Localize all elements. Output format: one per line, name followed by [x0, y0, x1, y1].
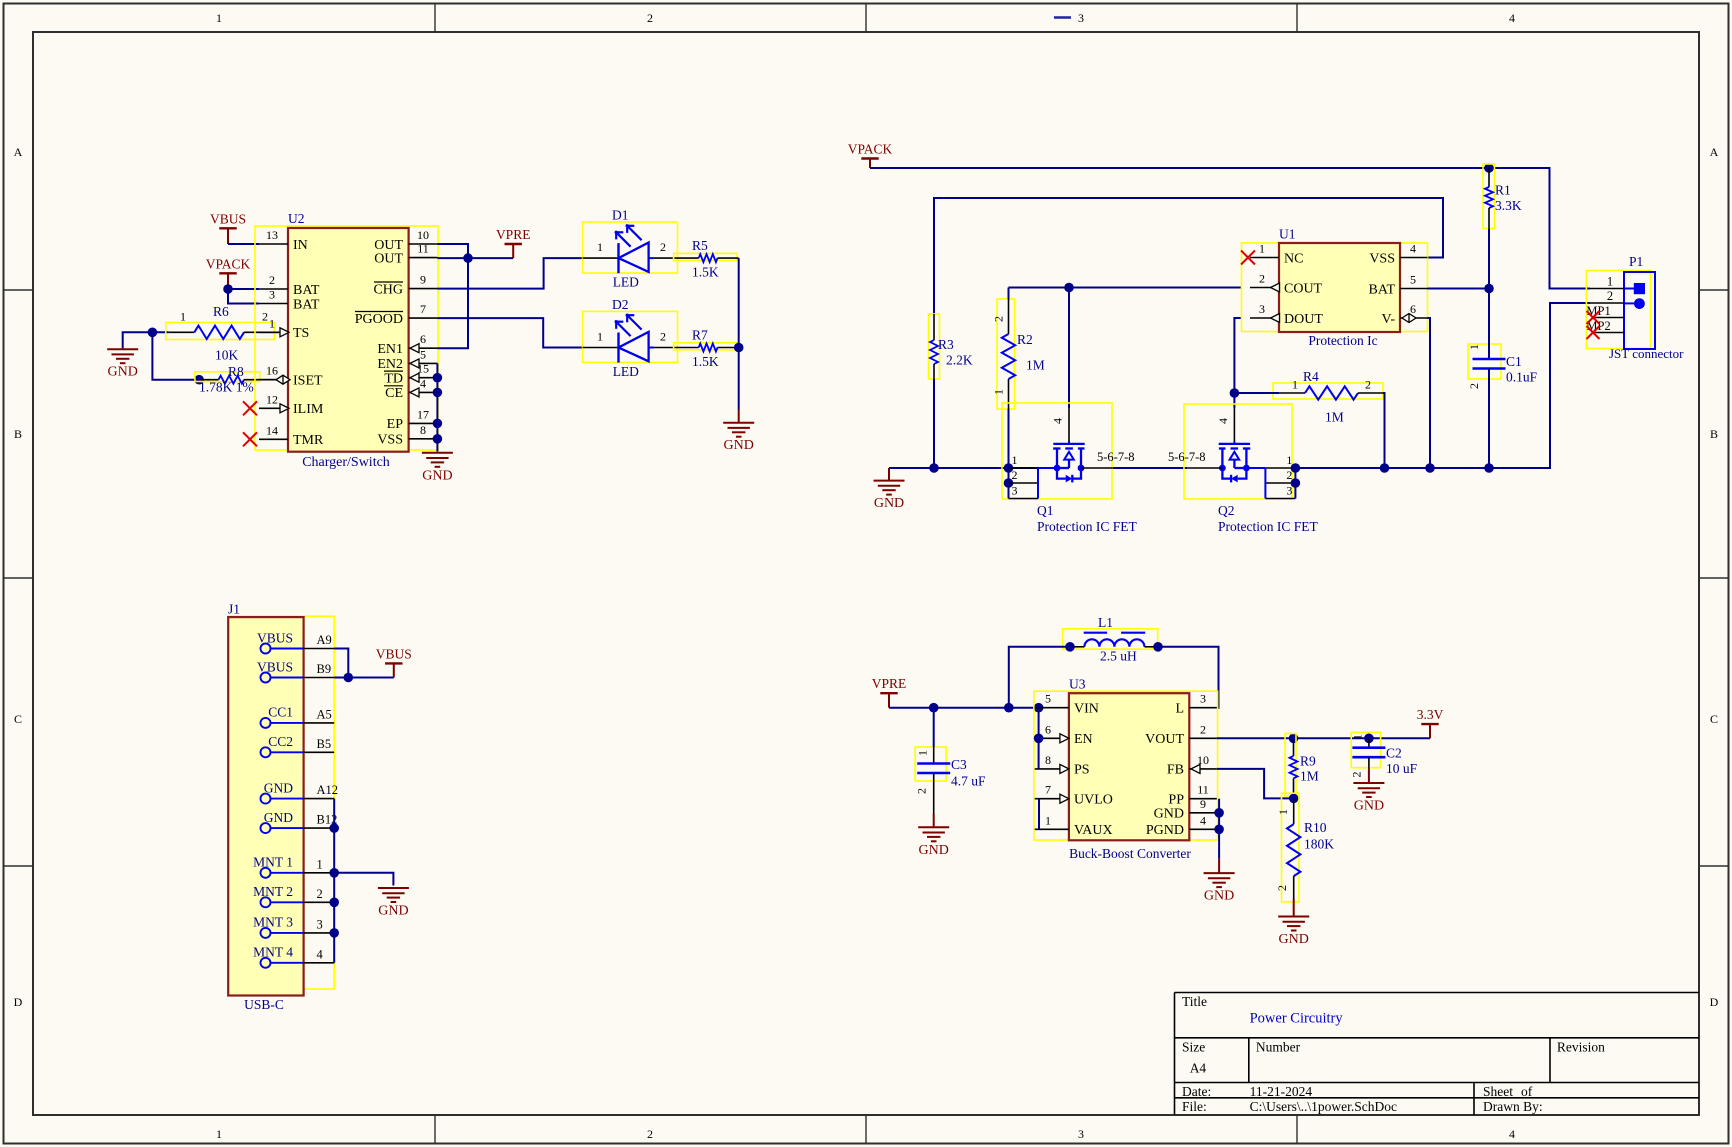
svg-text:0.1uF: 0.1uF: [1506, 370, 1538, 385]
svg-text:3: 3: [1259, 302, 1265, 316]
wire V- down: [1428, 318, 1431, 468]
junction U3 GND pin: [1214, 808, 1224, 818]
svg-text:R10: R10: [1304, 820, 1327, 835]
wire PGOOD to D2: [437, 318, 582, 347]
svg-text:1: 1: [1259, 242, 1265, 256]
svg-text:2: 2: [317, 887, 323, 901]
power port VPRE buck: [872, 676, 907, 708]
svg-text:10 uF: 10 uF: [1386, 761, 1418, 776]
svg-text:4: 4: [1051, 418, 1065, 424]
svg-text:B9: B9: [317, 662, 332, 676]
wire VPRE rail: [889, 707, 1039, 709]
svg-text:VSS: VSS: [377, 433, 403, 448]
svg-text:1: 1: [1045, 813, 1051, 827]
wire VOUT rail: [1217, 737, 1430, 739]
wire COUT to R2: [1008, 288, 1010, 300]
svg-text:ISET: ISET: [293, 374, 323, 389]
junction R8 pin1: [194, 375, 204, 385]
wire COUT: [1009, 287, 1242, 289]
junction VPACK-BAT: [223, 284, 233, 294]
svg-text:EN1: EN1: [377, 342, 403, 357]
junction OUT node: [463, 253, 473, 263]
svg-text:B: B: [1710, 427, 1718, 441]
sheet marker dash: [1054, 16, 1071, 19]
svg-text:3: 3: [1078, 1127, 1084, 1141]
svg-text:VPRE: VPRE: [496, 227, 531, 242]
wire U2 EN2-TD-CE-EP-VSS to GND: [436, 363, 438, 451]
U2 left pins 13,2,3,1,16,12,14: [259, 228, 324, 448]
wire VPACK to BAT pins: [228, 288, 259, 290]
connector J1 USB-C body: [228, 602, 334, 1013]
wire R6 node to GND: [123, 332, 169, 348]
svg-text:PGOOD: PGOOD: [355, 312, 403, 327]
no-ERC mark U1 NC: [1241, 251, 1255, 265]
wire Q1 gate: [1068, 288, 1070, 409]
junction FB node: [1289, 794, 1299, 804]
svg-text:Protection IC FET: Protection IC FET: [1218, 519, 1318, 534]
svg-text:R5: R5: [692, 238, 708, 253]
svg-text:1: 1: [916, 750, 930, 756]
svg-text:A12: A12: [317, 783, 339, 797]
svg-text:MNT 4: MNT 4: [253, 945, 293, 960]
svg-text:Q1: Q1: [1037, 503, 1054, 518]
svg-text:16: 16: [266, 364, 278, 378]
svg-text:CC1: CC1: [268, 705, 293, 720]
svg-text:J1: J1: [228, 602, 240, 617]
wire R7 to GND: [738, 348, 740, 410]
svg-text:4: 4: [1509, 1127, 1515, 1141]
svg-text:B: B: [14, 427, 22, 441]
svg-text:GND: GND: [1204, 889, 1234, 904]
svg-text:MNT 2: MNT 2: [253, 884, 293, 899]
svg-text:GND: GND: [1154, 807, 1184, 822]
wire R1 to BAT node: [1488, 229, 1490, 289]
svg-text:L1: L1: [1098, 615, 1113, 630]
svg-text:5: 5: [1045, 692, 1051, 706]
wire J1 GND bus: [333, 799, 335, 963]
svg-text:1: 1: [597, 240, 603, 254]
svg-text:GND: GND: [264, 780, 293, 795]
svg-text:VSS: VSS: [1369, 251, 1395, 266]
svg-text:L: L: [1175, 702, 1184, 717]
svg-text:OUT: OUT: [374, 251, 403, 266]
svg-text:R4: R4: [1303, 369, 1319, 384]
svg-text:4: 4: [1509, 11, 1515, 25]
svg-text:2: 2: [1259, 272, 1265, 286]
no-ERC mark ILIM: [243, 401, 257, 415]
junction J1 B12: [329, 823, 339, 833]
wire R2 to Q1 pins: [1008, 409, 1010, 499]
svg-text:2: 2: [660, 240, 666, 254]
svg-text:5-6-7-8: 5-6-7-8: [1168, 450, 1206, 464]
svg-text:R6: R6: [213, 304, 229, 319]
wire J1 B9 to VBUS: [334, 677, 394, 679]
junction BAT-C1: [1484, 284, 1494, 294]
wire bus Q2 to JST pin2: [1295, 303, 1590, 468]
transistor Q2: [1184, 404, 1295, 499]
svg-text:A: A: [14, 145, 23, 159]
svg-text:7: 7: [1045, 783, 1051, 797]
svg-text:GND: GND: [919, 843, 949, 858]
svg-text:3: 3: [1078, 11, 1084, 25]
wire MNT1 to GND: [334, 873, 393, 886]
svg-text:2: 2: [262, 310, 268, 324]
wire FB: [1217, 769, 1294, 799]
ground GND under C2: [1353, 783, 1384, 814]
wire U3 GND stub: [1218, 859, 1220, 873]
svg-text:D: D: [14, 995, 23, 1009]
svg-text:1M: 1M: [1325, 410, 1344, 425]
no-ERC mark MP2: [1587, 326, 1600, 339]
junction C3: [929, 703, 939, 713]
svg-text:2: 2: [1012, 468, 1018, 482]
svg-text:2: 2: [1607, 289, 1613, 303]
junction L1 pin1: [1065, 642, 1075, 652]
power port VBUS at J1: [376, 646, 412, 677]
svg-text:CHG: CHG: [373, 282, 403, 297]
svg-text:U1: U1: [1279, 227, 1296, 242]
power port 3.3V: [1417, 707, 1444, 738]
junction DOUT-R4: [1230, 388, 1240, 398]
transistor Q1: [1002, 403, 1113, 499]
junction U3 PGND pin: [1214, 825, 1224, 835]
svg-text:3.3K: 3.3K: [1495, 198, 1522, 213]
resistor R10: [1275, 793, 1334, 902]
svg-text:A5: A5: [317, 707, 332, 721]
U2 right pins 10,11,9,7,6,5,15,4,17,8: [355, 228, 438, 448]
svg-text:1: 1: [180, 310, 186, 324]
junction V- bus: [1425, 463, 1435, 473]
svg-text:VIN: VIN: [1074, 702, 1099, 717]
U2 pin ISET diamond: [276, 375, 290, 384]
junction TD: [433, 373, 443, 383]
junction VIN: [1034, 703, 1044, 713]
U1 V- diamond: [1402, 314, 1416, 323]
junction L1 pin2: [1153, 642, 1163, 652]
svg-text:9: 9: [420, 273, 426, 287]
svg-text:VAUX: VAUX: [1074, 823, 1113, 838]
svg-text:1: 1: [1286, 453, 1292, 467]
svg-text:VOUT: VOUT: [1145, 732, 1184, 747]
svg-text:VBUS: VBUS: [210, 211, 246, 226]
svg-text:EN: EN: [1074, 732, 1093, 747]
svg-text:TS: TS: [293, 326, 309, 341]
svg-text:BAT: BAT: [293, 297, 320, 312]
svg-text:2: 2: [1365, 378, 1371, 392]
svg-text:BAT: BAT: [1369, 282, 1396, 297]
svg-text:2: 2: [1467, 383, 1481, 389]
svg-text:C: C: [1710, 712, 1718, 726]
svg-text:VPACK: VPACK: [848, 142, 893, 157]
svg-text:JST connector: JST connector: [1609, 346, 1684, 361]
svg-text:180K: 180K: [1304, 837, 1334, 852]
junction R3 bus: [929, 463, 939, 473]
wire R3 to bus: [933, 379, 935, 468]
svg-text:C2: C2: [1386, 746, 1402, 761]
svg-text:1: 1: [317, 857, 323, 871]
junction R2-bus: [1004, 463, 1014, 473]
svg-text:11: 11: [1197, 783, 1209, 797]
svg-text:PGND: PGND: [1146, 823, 1184, 838]
junction Q2 pin2: [1291, 478, 1301, 488]
wire OUT to EN1: [437, 258, 468, 348]
svg-text:5: 5: [1410, 273, 1416, 287]
svg-text:D: D: [1710, 995, 1719, 1009]
junction J1 MNT2: [329, 898, 339, 908]
junction C1 bus: [1484, 463, 1494, 473]
svg-text:R7: R7: [692, 328, 708, 343]
svg-text:1: 1: [1276, 809, 1290, 815]
svg-text:1: 1: [597, 330, 603, 344]
svg-text:Size: Size: [1182, 1040, 1205, 1055]
svg-text:GND: GND: [1279, 932, 1309, 947]
svg-text:VPRE: VPRE: [872, 676, 907, 691]
svg-text:FB: FB: [1167, 763, 1184, 778]
svg-text:2: 2: [915, 788, 929, 794]
ground GND under U3: [1204, 873, 1235, 904]
svg-text:USB-C: USB-C: [244, 997, 284, 1012]
svg-text:11-21-2024: 11-21-2024: [1250, 1084, 1313, 1099]
svg-text:Charger/Switch: Charger/Switch: [302, 455, 390, 470]
junction L1 left branch: [1004, 703, 1014, 713]
resistor R5: [674, 238, 739, 280]
svg-text:EP: EP: [387, 417, 404, 432]
wire CHG to D1: [437, 258, 582, 289]
svg-text:1M: 1M: [1300, 769, 1319, 784]
wire VSS rail: [934, 198, 1443, 314]
svg-text:6: 6: [1045, 722, 1051, 736]
wire PP-GND-PGND to GND: [1218, 799, 1220, 859]
U2 pin CE input arrow: [410, 388, 419, 397]
op-amp U2 charger IC body: [255, 211, 438, 470]
svg-text:Protection Ic: Protection Ic: [1308, 333, 1377, 348]
inductor L1: [1063, 615, 1158, 664]
svg-text:C: C: [14, 712, 22, 726]
svg-text:R1: R1: [1495, 183, 1511, 198]
svg-text:Protection IC FET: Protection IC FET: [1037, 519, 1137, 534]
svg-text:GND: GND: [724, 438, 754, 453]
svg-text:GND: GND: [264, 810, 293, 825]
svg-text:2: 2: [1350, 772, 1364, 778]
svg-text:U3: U3: [1069, 677, 1086, 692]
svg-text:3: 3: [1012, 484, 1018, 498]
svg-text:CC2: CC2: [268, 734, 293, 749]
svg-text:R9: R9: [1300, 754, 1316, 769]
U1 DOUT output arrow: [1271, 314, 1280, 323]
svg-text:Number: Number: [1256, 1040, 1301, 1055]
junction VBUS J1: [344, 673, 354, 683]
junction VSS: [433, 434, 443, 444]
svg-text:LED: LED: [613, 275, 639, 290]
LED D1: [583, 208, 678, 290]
svg-text:4: 4: [1410, 242, 1416, 256]
svg-text:4: 4: [1216, 418, 1230, 424]
ground GND under R10: [1278, 917, 1309, 948]
svg-text:Buck-Boost Converter: Buck-Boost Converter: [1069, 846, 1191, 861]
ground GND under U2: [422, 453, 453, 484]
svg-text:GND: GND: [378, 904, 408, 919]
svg-text:1: 1: [1467, 344, 1481, 350]
wire R6 node to R8: [152, 332, 199, 379]
resistor R7: [674, 328, 739, 370]
svg-text:1: 1: [216, 1127, 222, 1141]
svg-text:1: 1: [216, 11, 222, 25]
svg-text:R3: R3: [938, 337, 954, 352]
no-ERC mark TMR: [243, 432, 257, 446]
svg-text:PP: PP: [1168, 793, 1184, 808]
svg-text:GND: GND: [874, 496, 904, 511]
U3 left pins 5,6,8,7,1: [1035, 692, 1113, 838]
svg-text:Drawn By:: Drawn By:: [1483, 1099, 1543, 1114]
junction R6 node: [148, 328, 158, 338]
svg-text:C:\Users\..\1power.SchDoc: C:\Users\..\1power.SchDoc: [1250, 1099, 1397, 1114]
svg-text:R8: R8: [228, 364, 244, 379]
svg-text:2.5 uH: 2.5 uH: [1100, 649, 1137, 664]
svg-text:MNT 1: MNT 1: [253, 855, 293, 870]
wire R10 GND stub: [1293, 899, 1295, 917]
svg-text:UVLO: UVLO: [1074, 793, 1113, 808]
svg-text:13: 13: [266, 228, 278, 242]
title block: [1175, 993, 1700, 1116]
svg-text:1: 1: [1607, 275, 1613, 289]
svg-text:Title: Title: [1182, 994, 1207, 1009]
svg-text:C3: C3: [951, 757, 967, 772]
svg-text:R2: R2: [1017, 332, 1033, 347]
svg-text:11: 11: [417, 242, 429, 256]
wire VPRE to L1: [1009, 647, 1071, 708]
svg-text:1.5K: 1.5K: [692, 354, 719, 369]
no-ERC mark MP1: [1587, 311, 1600, 324]
svg-text:PS: PS: [1074, 763, 1090, 778]
wire VBUS to U2 pin13: [228, 243, 259, 245]
svg-text:2.2K: 2.2K: [946, 353, 973, 368]
junction R9 top: [1289, 734, 1299, 744]
svg-text:DOUT: DOUT: [1284, 312, 1323, 327]
junction Q1 pin2: [1004, 478, 1014, 488]
ground GND left: [107, 349, 138, 380]
svg-text:GND: GND: [422, 468, 452, 483]
svg-text:2: 2: [1275, 885, 1289, 891]
op-amp U3 buck-boost IC body: [1034, 677, 1218, 862]
svg-text:D2: D2: [612, 297, 629, 312]
U2 pin ILIM input arrow: [280, 404, 289, 413]
svg-text:1: 1: [1351, 734, 1365, 740]
svg-text:1: 1: [1292, 378, 1298, 392]
ground GND protection: [888, 468, 890, 481]
svg-text:File:: File:: [1182, 1099, 1207, 1114]
wire bus Q1drain to Q2drain: [1113, 467, 1187, 469]
wire R4 to bus: [1383, 393, 1385, 468]
resistor R3: [929, 314, 973, 379]
capacitor C3: [915, 708, 987, 814]
wire VIN-EN-PS bracket: [1038, 708, 1040, 769]
U2 pin TS input arrow: [280, 328, 289, 337]
svg-text:3: 3: [317, 917, 323, 931]
svg-text:V-: V-: [1382, 312, 1396, 327]
ground GND under C3: [918, 827, 949, 858]
svg-text:A: A: [1710, 145, 1719, 159]
svg-text:2: 2: [660, 330, 666, 344]
svg-text:5-6-7-8: 5-6-7-8: [1097, 450, 1135, 464]
svg-text:BAT: BAT: [293, 283, 320, 298]
svg-text:MNT 3: MNT 3: [253, 915, 293, 930]
svg-text:4.7 uF: 4.7 uF: [951, 774, 986, 789]
svg-text:NC: NC: [1284, 251, 1303, 266]
svg-text:10: 10: [417, 228, 429, 242]
svg-text:VBUS: VBUS: [257, 659, 293, 674]
U3 right pins 3,2,10,11,9,4: [1145, 692, 1217, 838]
wire BAT to C1: [1428, 288, 1490, 290]
svg-text:17: 17: [417, 407, 429, 421]
op-amp U1 protection IC body: [1242, 227, 1428, 349]
junction EP: [433, 419, 443, 429]
U2 pin EN1 input arrow: [410, 344, 419, 353]
svg-text:Sheet: Sheet: [1483, 1084, 1513, 1099]
junction VPACK-R1: [1484, 163, 1494, 173]
svg-text:1: 1: [1012, 453, 1018, 467]
capacitor C1: [1467, 289, 1538, 469]
U1 left pins 1,2,3: [1250, 242, 1323, 327]
svg-text:1.78K 1%: 1.78K 1%: [199, 380, 254, 395]
svg-text:of: of: [1521, 1084, 1533, 1099]
wire R5 to R7: [738, 258, 740, 347]
svg-text:9: 9: [1200, 797, 1206, 811]
resistor R4: [1234, 369, 1383, 425]
svg-text:A4: A4: [1190, 1061, 1207, 1076]
wire C3 GND stub: [933, 814, 935, 827]
wire C2 GND stub: [1368, 769, 1370, 783]
junction J1 MNT3: [329, 928, 339, 938]
capacitor C2: [1350, 732, 1418, 777]
svg-text:ILIM: ILIM: [293, 402, 324, 417]
svg-text:2: 2: [647, 1127, 653, 1141]
connector P1 JST: [1586, 254, 1684, 361]
J1 pins A9,B9,A5,B5,A12,B12,1,2,3,4: [253, 630, 338, 968]
junction J1 MNT1: [329, 868, 339, 878]
svg-text:2: 2: [1200, 722, 1206, 736]
svg-text:8: 8: [420, 423, 426, 437]
svg-text:CE: CE: [385, 386, 403, 401]
svg-text:TD: TD: [384, 372, 403, 387]
svg-text:4: 4: [317, 947, 324, 961]
wire VPACK rail: [870, 167, 1489, 169]
svg-text:3: 3: [1200, 692, 1206, 706]
wire DOUT: [1234, 318, 1241, 393]
svg-text:12: 12: [266, 392, 278, 406]
svg-text:6: 6: [420, 332, 426, 346]
U2 pin TD input arrow: [410, 373, 419, 382]
svg-text:GND: GND: [1354, 799, 1384, 814]
U1 COUT output arrow: [1271, 283, 1280, 292]
svg-text:Q2: Q2: [1218, 503, 1235, 518]
junction COUT-Q1gate: [1064, 283, 1074, 293]
svg-text:VPACK: VPACK: [206, 256, 251, 271]
resistor R8: [195, 364, 288, 395]
U1 right pins 4,5,6: [1369, 242, 1428, 327]
power port VBUS: [210, 211, 246, 244]
wire DOUT to Q2 gate: [1233, 393, 1235, 408]
resistor R9: [1285, 734, 1319, 799]
wire L1 to U3 L pin: [1156, 647, 1218, 708]
wire V- bus left: [889, 467, 1057, 469]
svg-text:4: 4: [1200, 813, 1206, 827]
ground GND under LED resistors: [723, 423, 754, 454]
svg-text:4: 4: [420, 376, 426, 390]
U2 pin EN2 input arrow: [410, 359, 419, 368]
junction C2 top: [1364, 734, 1374, 744]
power port VPACK top: [848, 142, 893, 169]
svg-text:7: 7: [420, 302, 426, 316]
